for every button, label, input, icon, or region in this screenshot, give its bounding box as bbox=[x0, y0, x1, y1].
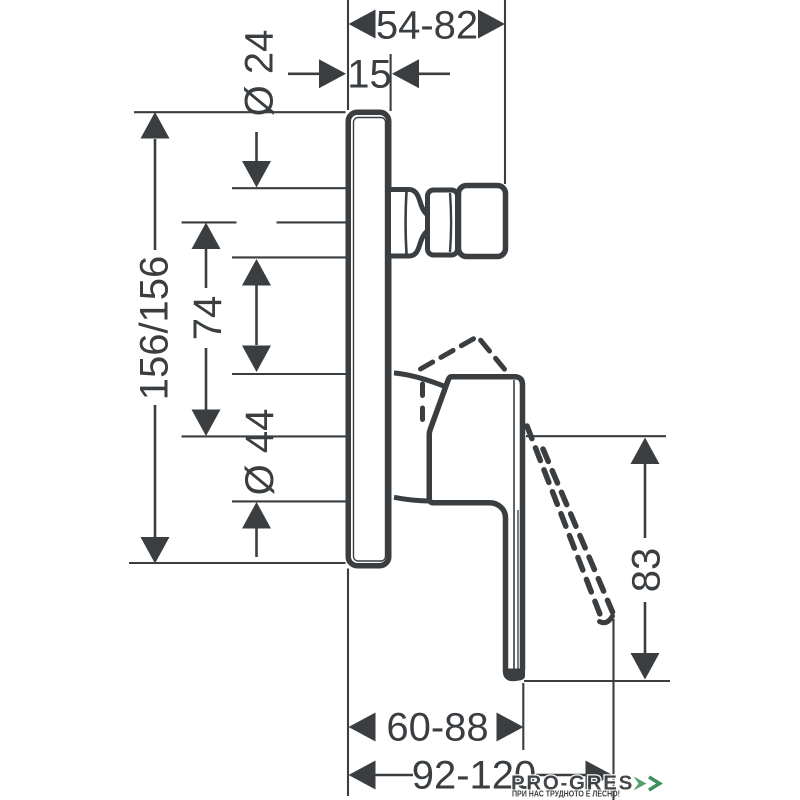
dashed handle up position lever bbox=[421, 337, 507, 372]
dim 156/156 top arrow bbox=[141, 112, 170, 139]
dim dia44 lower tail bbox=[255, 528, 258, 557]
dim 15 left arrow bbox=[319, 59, 346, 88]
spout end knob bbox=[459, 186, 506, 257]
svg-text:15: 15 bbox=[347, 53, 392, 97]
dim 83 bottom arrow bbox=[631, 653, 660, 680]
dim 156/156 line lower bbox=[154, 405, 157, 537]
centerline spout axis y=222.4 bbox=[182, 221, 346, 223]
extension line top wall x=348 bbox=[347, 0, 349, 110]
dim 15 right arrow bbox=[392, 59, 419, 88]
handle collar top edge bbox=[394, 373, 445, 387]
dashed lever down position end cap bbox=[600, 616, 613, 623]
extension line handle top y=374 bbox=[232, 373, 346, 375]
dashed lever down position inner edge bbox=[543, 449, 613, 612]
dim dia44 lower arrow bbox=[242, 502, 271, 529]
dim 54-82 left arrow bbox=[349, 10, 376, 39]
extension line lever bottom right y=681 bbox=[524, 680, 670, 682]
extension line below plate x=348 bbox=[347, 569, 349, 797]
dim dia24-dia44 shared tail bbox=[255, 285, 258, 345]
dim 74 line lower bbox=[205, 348, 208, 410]
dashed collar edge up position bbox=[420, 384, 425, 427]
extension line plate bottom y=563 bbox=[129, 562, 346, 564]
dim 92-120 left tail bbox=[375, 774, 413, 777]
extension line spout end x=505 bbox=[504, 0, 506, 184]
dim dia24 upper arrow bbox=[242, 161, 271, 188]
spout hub cone bbox=[391, 190, 429, 257]
dim 15 left tail bbox=[288, 73, 320, 76]
centerline handle axis y=436.4 bbox=[182, 435, 346, 437]
svg-text:156/156: 156/156 bbox=[133, 256, 177, 401]
svg-text:54-82: 54-82 bbox=[376, 4, 478, 48]
dim dia24 lower arrow bbox=[242, 259, 271, 286]
extension line spout top y=188 bbox=[232, 187, 346, 189]
handle collar bottom edge bbox=[394, 497, 430, 501]
dim 60-88 left arrow bbox=[349, 713, 376, 742]
dim 156/156 line upper bbox=[154, 139, 157, 250]
extension line handle axis right y=436 bbox=[526, 435, 666, 437]
lever inner line 1 bbox=[513, 380, 515, 674]
dim 74 line upper bbox=[205, 249, 208, 288]
extension line spout bottom y=257.4 bbox=[232, 256, 346, 258]
svg-text:60-88: 60-88 bbox=[386, 706, 488, 750]
extension line below lever x=523.3 bbox=[522, 683, 524, 750]
svg-text:74: 74 bbox=[186, 296, 230, 341]
dim 156/156 bottom arrow bbox=[141, 537, 170, 564]
dim 54-82 right arrow bbox=[478, 10, 505, 39]
dim 74 top arrow bbox=[192, 223, 221, 250]
dim 15 right tail bbox=[418, 73, 450, 76]
svg-text:83: 83 bbox=[625, 548, 669, 593]
plate escutcheon bbox=[348, 112, 389, 566]
svg-text:ПРИ НАС ТРУДНОТО Е ЛЕСНО!: ПРИ НАС ТРУДНОТО Е ЛЕСНО! bbox=[512, 790, 620, 799]
dim 92-120 right tail bbox=[536, 774, 586, 777]
spout middle knob edge line bbox=[450, 193, 451, 252]
extension line plate front x=390.6 bbox=[390, 54, 392, 111]
handle body and lever outline bbox=[429, 377, 522, 679]
svg-text:Ø 44: Ø 44 bbox=[238, 409, 282, 496]
dim 92-120 right arrow bbox=[586, 761, 613, 790]
extension line dashed-lever tip x=613.5 bbox=[612, 619, 614, 800]
dim 83 line upper bbox=[644, 464, 647, 538]
plate inner edge line bbox=[354, 118, 386, 562]
logo green arrow solid bbox=[634, 777, 647, 791]
extension line plate top y=112 bbox=[134, 111, 346, 113]
dashed lever down position outer edge bbox=[527, 426, 601, 617]
svg-text:Ø 24: Ø 24 bbox=[238, 30, 282, 117]
dim dia24 tail above bbox=[255, 132, 258, 162]
dim 60-88 right arrow bbox=[497, 713, 524, 742]
dim 74 bottom arrow bbox=[192, 410, 221, 437]
dim dia44 upper arrow bbox=[242, 346, 271, 373]
logo green chevron bbox=[649, 777, 660, 790]
dim 83 line lower bbox=[644, 602, 647, 653]
extension line handle bottom y=501.4 bbox=[232, 500, 346, 502]
spout hub ellipse line bbox=[404, 191, 408, 254]
lever end cap solid bbox=[506, 671, 523, 679]
lever inner line 2 bbox=[517, 510, 519, 674]
dim 92-120 left arrow bbox=[349, 761, 376, 790]
spout middle knob bbox=[428, 190, 458, 255]
dim 83 top arrow bbox=[631, 438, 660, 465]
